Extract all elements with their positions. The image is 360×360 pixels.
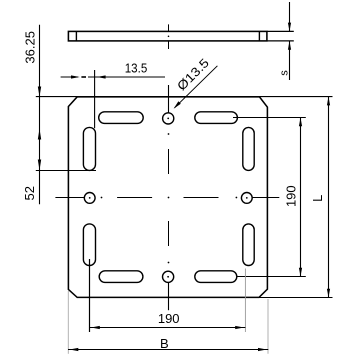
13.5 extension line bbox=[94, 70, 96, 128]
vertical centerline dot above bottom hole bbox=[168, 262, 170, 264]
side view centerline bbox=[168, 24, 170, 31]
horizontal centerline dot left bbox=[101, 197, 103, 199]
slot bottom-right horizontal bbox=[195, 271, 237, 283]
slot bottom extension line bbox=[36, 170, 96, 172]
extension line top row bbox=[233, 117, 306, 119]
top edge extension to left bbox=[36, 96, 77, 98]
hole bottom-center bbox=[163, 271, 174, 282]
top edge extension to right bbox=[259, 96, 332, 98]
B extension left bbox=[67, 291, 69, 354]
190 dimension line bbox=[300, 118, 302, 277]
horizontal centerline dot right bbox=[236, 197, 238, 199]
13.5 arrow pointing left bbox=[97, 75, 106, 78]
190 bottom dimension line bbox=[90, 327, 246, 329]
hole center dots bbox=[167, 118, 169, 120]
horizontal centerline dash left bbox=[117, 197, 152, 199]
13.5 dimension line right part bbox=[88, 76, 165, 78]
hole left-middle bbox=[84, 193, 95, 204]
arrow down at plate top bbox=[38, 87, 41, 97]
svg-text:190: 190 bbox=[158, 311, 180, 326]
extension line from right slot down bbox=[244, 269, 246, 333]
L arrow bottom bbox=[327, 289, 330, 298]
left dimension line bbox=[39, 25, 41, 205]
bottom edge extension to right bbox=[259, 297, 333, 299]
extension line bottom row bbox=[237, 276, 306, 278]
190 arrow bottom bbox=[299, 268, 302, 277]
svg-text:36.25: 36.25 bbox=[23, 31, 38, 64]
s arrow top bbox=[288, 23, 291, 32]
s dimension line upper bbox=[289, 2, 291, 31]
hole right-middle bbox=[241, 193, 252, 204]
s dimension line lower bbox=[289, 41, 291, 80]
slot top-left horizontal bbox=[99, 112, 144, 124]
190 bottom arrow right bbox=[235, 326, 244, 329]
center dot bbox=[168, 197, 170, 199]
horizontal centerline solid right bbox=[252, 197, 279, 199]
arrow up at slot top bbox=[38, 129, 41, 140]
L dimension line bbox=[328, 97, 330, 298]
side view right chamfer tick bbox=[258, 31, 260, 41]
vertical centerline dash upper bbox=[168, 149, 170, 174]
svg-text:190: 190 bbox=[283, 185, 298, 207]
leader arrow bbox=[174, 101, 181, 109]
svg-text:13.5: 13.5 bbox=[125, 61, 148, 76]
B arrow left bbox=[70, 348, 79, 351]
190 arrow top bbox=[299, 118, 302, 127]
slot top-right horizontal bbox=[195, 112, 238, 124]
extension lines for s bbox=[267, 30, 294, 32]
svg-text:B: B bbox=[160, 336, 169, 351]
svg-text:L: L bbox=[310, 195, 325, 202]
svg-text:52: 52 bbox=[22, 186, 37, 200]
slot left-bottom vertical bbox=[83, 224, 95, 266]
horizontal centerline solid left bbox=[55, 197, 84, 199]
vertical centerline above top hole bbox=[168, 85, 170, 113]
vertical centerline dash lower bbox=[168, 221, 170, 246]
13.5 arrow pointing right bbox=[71, 75, 80, 78]
s arrow bottom bbox=[288, 41, 291, 50]
vertical centerline below bottom hole bbox=[168, 282, 170, 310]
B extension right bbox=[267, 299, 269, 354]
vertical centerline dot below top hole bbox=[168, 133, 170, 135]
side view outline bbox=[68, 31, 267, 41]
190 bottom arrow left bbox=[91, 326, 100, 329]
13.5 short dash bbox=[81, 76, 86, 78]
horizontal centerline dash right bbox=[184, 197, 219, 199]
arrow down at slot bottom bbox=[38, 160, 41, 171]
slot right-top vertical bbox=[243, 127, 254, 170]
13.5 dimension line left part bbox=[61, 76, 78, 78]
leader line bbox=[175, 66, 218, 108]
slot bottom-left horizontal bbox=[99, 271, 143, 283]
B dimension line bbox=[68, 349, 268, 351]
slot left-top vertical bbox=[83, 127, 95, 170]
L arrow top bbox=[327, 97, 330, 106]
side view left chamfer tick bbox=[75, 31, 77, 41]
svg-text:s: s bbox=[279, 70, 291, 76]
plate outline with chamfered corners bbox=[68, 97, 267, 298]
B arrow right bbox=[258, 348, 267, 351]
slot right-bottom vertical bbox=[243, 224, 254, 266]
hole top-center bbox=[163, 113, 174, 124]
extension line from left slot down bbox=[89, 259, 91, 332]
